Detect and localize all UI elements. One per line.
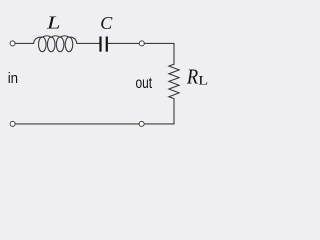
svg-text:in: in xyxy=(8,69,18,86)
svg-text:L: L xyxy=(46,12,61,32)
wire inductor to capacitor xyxy=(77,42,100,44)
input terminal (bottom left) xyxy=(10,121,15,126)
resistor RL zigzag xyxy=(169,64,179,98)
node out (bottom) xyxy=(139,121,144,126)
svg-text:R: R xyxy=(186,65,198,88)
svg-text:out: out xyxy=(136,73,153,91)
svg-text:L: L xyxy=(198,74,208,88)
wire capacitor to out node xyxy=(108,42,139,44)
node out (top) xyxy=(139,41,144,46)
inductor L xyxy=(34,36,77,52)
wire resistor to bottom rail xyxy=(144,99,174,124)
wire out node to corner xyxy=(144,43,174,64)
bottom rail wire xyxy=(15,123,139,125)
svg-text:C: C xyxy=(100,13,113,33)
capacitor C plates xyxy=(99,37,107,52)
input terminal (top left) xyxy=(10,41,15,46)
wire input to inductor xyxy=(15,42,33,44)
